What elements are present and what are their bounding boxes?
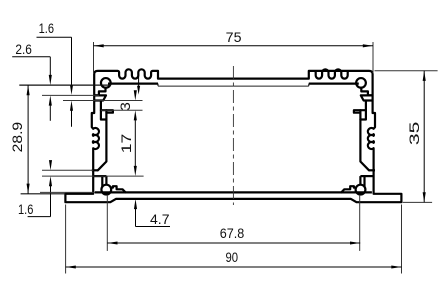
ceiling step right <box>308 84 310 87</box>
ceiling left section <box>108 82 158 84</box>
dim 90 arrow right <box>391 265 401 268</box>
screw boss hook top-left <box>95 88 106 96</box>
dim 67.8 arrow right <box>350 241 360 244</box>
dim 1.6 bottom underline <box>28 216 51 218</box>
screw boss circle bottom-left <box>101 185 111 195</box>
floor top surface <box>95 191 372 193</box>
dim 67.8 ext right <box>359 195 361 251</box>
upper PCB ledge left <box>95 95 106 100</box>
svg-text:4.7: 4.7 <box>150 211 170 227</box>
screw boss circle top-left <box>101 78 111 88</box>
svg-text:17: 17 <box>118 133 134 153</box>
rail bottom edge right <box>360 175 373 177</box>
dim 3 upper arrow <box>134 90 137 100</box>
dim 75 arrow right <box>363 44 373 47</box>
screw boss bump bottom-right <box>341 186 355 192</box>
fin valley arrow <box>137 86 140 95</box>
dim 67.8 line <box>107 242 360 244</box>
ext line ledgeB top left <box>101 109 143 111</box>
screw channel left <box>101 101 107 120</box>
svg-text:3: 3 <box>117 102 133 111</box>
ext line floor top left <box>40 191 95 193</box>
ceiling step left <box>157 84 159 87</box>
dim 1.6 top lower tail <box>71 110 73 127</box>
ceiling center section <box>158 85 309 87</box>
screw boss bump bottom-left <box>111 186 125 192</box>
rail slot inner vertical left <box>105 176 107 185</box>
inner wall face and chamfer left <box>98 110 107 170</box>
svg-text:2.6: 2.6 <box>15 41 32 57</box>
dim 2.6 leader <box>49 57 51 77</box>
upper PCB ledge right <box>361 95 372 100</box>
dim 35 bottom arrow <box>423 192 426 202</box>
dim 2.6 lower tail <box>49 105 51 121</box>
lower slot ledge left <box>101 110 113 113</box>
rail top edge right <box>369 169 375 171</box>
ext line flange top left <box>21 193 66 195</box>
ext line ceiling left <box>19 84 111 86</box>
rail slot outer vertical right <box>363 176 365 187</box>
ext line rail bottom <box>42 175 144 177</box>
screw boss circle bottom-right <box>356 185 366 195</box>
svg-text:75: 75 <box>226 29 242 45</box>
dim 28.9 line <box>27 85 29 194</box>
screw boss circle top-right <box>356 78 366 88</box>
lower slot ledge right <box>354 110 366 113</box>
dim 75 arrow left <box>94 44 104 47</box>
dim 2.6 lower arrow <box>49 95 52 105</box>
dim 2.6 underline <box>12 56 50 58</box>
dim 90 ext left <box>65 205 67 274</box>
dim 28.9 top arrow <box>27 85 30 95</box>
svg-text:67.8: 67.8 <box>220 225 245 241</box>
dim 1.6 bottom upper arrow <box>49 160 52 170</box>
dim 28.9 bottom arrow <box>27 184 30 194</box>
rail top edge left <box>92 169 98 171</box>
ceiling right section <box>309 82 359 84</box>
dim 35 top arrow <box>423 71 426 81</box>
dim 3 lower arrow <box>134 110 137 120</box>
dim 1.6 top upper arrow <box>70 85 73 95</box>
rail slot inner vertical right <box>359 176 361 185</box>
dim 1.6 bottom leader <box>50 185 52 217</box>
dim 17 line <box>134 120 136 167</box>
dim 1.6 top lower arrow <box>70 101 73 111</box>
dim 35 line <box>423 71 425 203</box>
svg-text:90: 90 <box>226 249 239 265</box>
dim 75 extension line right <box>372 42 374 73</box>
dim 1.6 top leader <box>71 37 73 86</box>
dim 35 ext bottom <box>403 201 432 203</box>
dim 67.8 arrow left <box>107 241 117 244</box>
dim 17 bottom arrow <box>134 166 137 176</box>
vertical center line <box>232 66 234 205</box>
dim 75 extension line left <box>93 42 95 73</box>
ext line ledgeA top left <box>42 94 99 96</box>
screw channel right <box>360 101 366 120</box>
dim 4.7 leader <box>135 209 137 227</box>
dim 67.8 ext left <box>106 195 108 251</box>
dim 90 line <box>66 266 402 268</box>
dim 2.6 upper arrow <box>49 75 52 85</box>
rail slot outer vertical left <box>101 176 103 187</box>
dim 1.6 top underline <box>37 36 72 38</box>
dim 75 line <box>94 45 374 47</box>
dim 4.7 underline <box>136 226 171 228</box>
svg-text:1.6: 1.6 <box>18 201 34 217</box>
ext line rail top <box>42 169 93 171</box>
ext line ledgeA bottom left <box>63 100 143 102</box>
svg-text:28.9: 28.9 <box>9 122 25 153</box>
svg-text:1.6: 1.6 <box>39 20 55 36</box>
outer profile contour of extrusion <box>65 69 401 202</box>
dim 1.6 bottom lower arrow <box>49 176 52 186</box>
dim 4.7 lower arrow <box>134 199 137 209</box>
inner wall face and chamfer right <box>360 110 369 170</box>
dim 90 arrow left <box>66 265 76 268</box>
dim 35 ext top <box>375 70 438 72</box>
screw boss hook top-right <box>361 88 372 96</box>
fin valley leader <box>138 75 140 87</box>
svg-text:35: 35 <box>406 121 422 145</box>
dim 90 ext right <box>401 205 403 274</box>
rail bottom edge left <box>93 175 106 177</box>
